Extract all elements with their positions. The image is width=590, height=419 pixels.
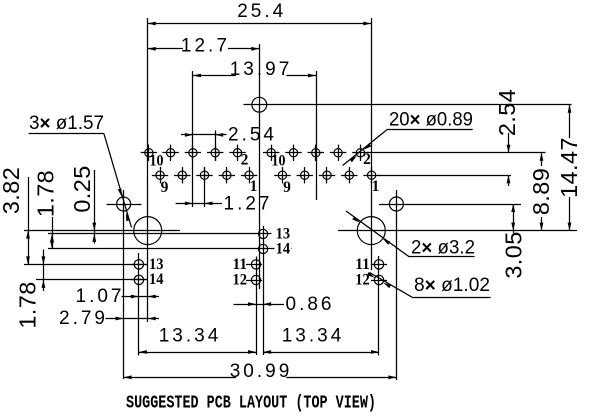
pin label 12 right	[355, 272, 370, 289]
pin 10 left connector (ø0.89)	[141, 145, 157, 161]
pin 1 left connector (ø0.89)	[241, 167, 257, 183]
pin label 9 right	[283, 179, 291, 196]
pin 4 left connector (ø0.89)	[207, 145, 223, 161]
callout 3x ø1.57 leader	[104, 134, 132, 228]
pin 14 left column (ø1.02)	[131, 275, 147, 284]
dimension 1.07 line	[122, 295, 160, 299]
callout 2x ø3.2 text	[411, 238, 475, 259]
wire: pin 13 left centerline y=264.4 (line D)	[24, 264, 147, 266]
pin 8 right connector (ø0.89)	[285, 145, 301, 161]
dimension 30.99 text	[230, 361, 293, 382]
dimension 13.34 left text	[159, 326, 222, 347]
dimension 1.27 line	[176, 202, 222, 206]
svg-text:11: 11	[355, 256, 370, 273]
dimension 2.79 text	[59, 308, 108, 329]
svg-text:3.05: 3.05	[501, 231, 527, 278]
dimension 13.34 right text	[282, 326, 345, 347]
pin 13 mid column (ø1.02)	[259, 229, 268, 238]
svg-text:3× ø1.57: 3× ø1.57	[29, 113, 104, 134]
dimension 14.47 text	[556, 137, 582, 198]
pin 2 right connector (ø0.89)	[352, 145, 368, 161]
pin 12 mid column (ø1.02)	[246, 275, 262, 284]
svg-text:2× ø3.2: 2× ø3.2	[411, 238, 475, 259]
callout 3x ø1.57 text	[29, 113, 104, 134]
pin 3 left connector (ø0.89)	[219, 167, 235, 183]
dimension 13.97 line	[193, 74, 316, 78]
svg-text:9: 9	[283, 179, 291, 196]
wire: extension line from top hole center x=259.3	[259, 44, 261, 289]
mounting hole left 2x ø3.2	[134, 217, 162, 245]
svg-text:13.34: 13.34	[282, 326, 345, 347]
dimension 0.86 text	[286, 294, 335, 315]
callout 20x ø0.89 text	[389, 110, 473, 131]
svg-text:SUGGESTED PCB LAYOUT (TOP VIEW: SUGGESTED PCB LAYOUT (TOP VIEW)	[126, 393, 376, 413]
dimension 12.7 text	[181, 36, 230, 57]
pin label 9 left	[161, 179, 169, 196]
wire: pin 14 mid centerline y=248.9 (line C)	[48, 248, 292, 250]
svg-text:10: 10	[272, 153, 286, 170]
wire: extension line from left mounting hole center x=147.7	[147, 18, 149, 322]
svg-text:1: 1	[372, 178, 380, 195]
pin 4 right connector (ø0.89)	[330, 145, 346, 161]
dimension 13.97 text	[230, 59, 293, 80]
svg-text:1.27: 1.27	[224, 194, 273, 215]
dimension 1.78 upper line	[50, 217, 54, 249]
wire: extension from pin 5 left x=204.5	[204, 167, 206, 207]
dimension 3.82 line	[26, 177, 30, 264]
svg-text:10: 10	[150, 153, 164, 170]
wire: left hole horizontal centerline y=204	[107, 204, 142, 206]
callout 8x ø1.02 underline	[412, 297, 491, 299]
pin 5 left connector (ø0.89)	[196, 167, 212, 183]
svg-text:1.78: 1.78	[33, 170, 59, 217]
pin label 11 mid	[233, 256, 248, 273]
svg-text:2: 2	[363, 151, 371, 168]
dimension 3.05 text	[501, 231, 527, 278]
pin 13 left column (ø1.02)	[131, 260, 147, 269]
pin 2 left connector (ø0.89)	[229, 145, 245, 161]
wire: pin 13 mid centerline y=233.9 (line B)	[48, 233, 272, 235]
wire: right hole horizontal centerline y=204	[379, 204, 521, 206]
svg-text:30.99: 30.99	[230, 361, 293, 382]
index hole left ø1.57	[117, 197, 131, 211]
pin label 10 left	[150, 153, 164, 170]
dimension 1.07 text	[76, 286, 125, 307]
dimension 2.54 right line	[507, 105, 511, 186]
dimension 0.86 line	[234, 302, 285, 306]
dimension 14.47 line	[568, 105, 572, 231]
svg-text:13.97: 13.97	[230, 59, 293, 80]
svg-text:9: 9	[161, 179, 169, 196]
svg-text:3.82: 3.82	[0, 167, 24, 214]
dimension 2.54 top line	[181, 133, 226, 137]
callout 2x ø3.2 leader	[346, 211, 410, 257]
svg-text:14: 14	[149, 271, 164, 288]
pin label 13 left	[149, 256, 164, 273]
callout 20x ø0.89 leader	[343, 129, 388, 165]
svg-text:8.89: 8.89	[528, 168, 554, 215]
svg-text:2.54: 2.54	[228, 125, 277, 146]
pin 7 right connector (ø0.89)	[297, 167, 313, 183]
wire: left mounting hole centerline y=230.6 (line A)	[24, 230, 180, 232]
pin label 10 right	[272, 153, 286, 170]
pin label 11 right	[355, 256, 370, 273]
dimension 1.27 text	[224, 194, 273, 215]
pin 3 right connector (ø0.89)	[341, 167, 357, 183]
wire: extension from right hole x=396.4 down to 30.99	[396, 190, 398, 380]
pin label 12 mid	[233, 272, 248, 289]
svg-text:12.7: 12.7	[181, 36, 230, 57]
svg-text:1: 1	[250, 178, 258, 195]
wire: extension pins 11/12 right x=379	[378, 256, 380, 356]
pin label 1 right	[372, 178, 380, 195]
svg-text:1.07: 1.07	[76, 286, 125, 307]
pin label 14 mid	[275, 240, 292, 257]
pin 14 mid column (ø1.02)	[259, 244, 268, 253]
pin 9 right connector (ø0.89)	[274, 167, 290, 183]
svg-text:14: 14	[276, 240, 291, 257]
pin 8 left connector (ø0.89)	[162, 145, 178, 161]
index hole top ø1.57	[252, 97, 267, 112]
pin 5 right connector (ø0.89)	[319, 167, 335, 183]
wire: extension pins 11/12 mid x=256	[256, 257, 258, 356]
wire: extension pins 13/14 mid x=263.1	[263, 226, 265, 355]
pin 6 left connector (ø0.89)	[185, 145, 201, 161]
dimension 30.99 line	[124, 375, 397, 379]
pin 6 right connector (ø0.89)	[308, 145, 324, 161]
wire: extension from pin 4 left x=215.2	[215, 131, 217, 162]
svg-text:12: 12	[233, 272, 248, 289]
pin 11 right column (ø1.02)	[371, 260, 387, 269]
pin label 1 left	[250, 178, 258, 195]
pin 10 right connector (ø0.89)	[263, 145, 279, 161]
callout 8x ø1.02 text	[414, 275, 490, 296]
callout 8x ø1.02 leader	[367, 272, 412, 297]
wire: left connector centerline x=192.9	[192, 71, 194, 207]
pin 7 left connector (ø0.89)	[174, 167, 190, 183]
dimension 1.78 lower text	[15, 281, 41, 328]
wire: pin 14 left centerline y=279.9 (line E)	[36, 279, 147, 281]
wire: pin row2 extension right y=175.2	[378, 175, 511, 177]
dimension 8.89 text	[528, 166, 554, 217]
pin 11 mid column (ø1.02)	[246, 260, 262, 269]
pin 9 left connector (ø0.89)	[152, 167, 168, 183]
svg-text:11: 11	[233, 256, 248, 273]
svg-text:1.78: 1.78	[15, 281, 41, 328]
svg-text:13.34: 13.34	[159, 326, 222, 347]
svg-text:14.47: 14.47	[556, 137, 582, 198]
mounting hole right 2x ø3.2	[357, 217, 385, 245]
dimension 1.78 lower line	[42, 250, 46, 292]
pin label 14 left	[149, 271, 164, 288]
callout 3x ø1.57 underline	[29, 133, 104, 135]
dimension 13.34 left line	[139, 350, 256, 354]
svg-text:25.4: 25.4	[237, 1, 286, 22]
dimension 12.7 line	[148, 47, 260, 51]
pin 12 right column (ø1.02)	[371, 275, 387, 284]
dimension 13.34 right line	[263, 350, 379, 354]
dimension 1.78 upper text	[33, 170, 59, 217]
dimension 2.54 top text	[228, 125, 277, 146]
callout 2x ø3.2 underline	[410, 256, 475, 258]
caption SUGGESTED PCB LAYOUT (TOP VIEW)	[126, 393, 376, 413]
svg-text:8× ø1.02: 8× ø1.02	[414, 275, 490, 296]
pin 1 right connector (ø0.89)	[363, 167, 379, 183]
wire: right mounting hole centerline y=230.6	[338, 230, 577, 232]
pin label 13 mid	[276, 225, 291, 242]
svg-text:0.86: 0.86	[286, 294, 335, 315]
dimension 2.79 line	[106, 317, 160, 321]
index hole right ø1.57	[389, 197, 403, 211]
dimension 3.82 text	[0, 167, 24, 214]
svg-text:0.25: 0.25	[69, 165, 95, 212]
dimension 2.54 right text	[494, 89, 520, 136]
svg-text:2.79: 2.79	[59, 308, 108, 329]
pin label 2 right	[363, 151, 371, 168]
dimension 25.4 text	[237, 1, 286, 22]
pin label 2 left	[241, 152, 249, 169]
dimension 8.89 line	[540, 153, 544, 231]
dimension 0.25 line	[92, 170, 96, 244]
dimension 3.05 line	[511, 204, 515, 233]
wire: extension from left hole x=123.6 down to 30.99	[123, 190, 125, 379]
svg-text:20× ø0.89: 20× ø0.89	[389, 110, 473, 131]
wire: extension pins 13/14 left x=138.9	[138, 253, 140, 356]
dimension 0.25 text	[69, 165, 95, 212]
svg-text:2: 2	[241, 152, 249, 169]
svg-text:2.54: 2.54	[494, 89, 520, 136]
wire: extension line from right mounting hole center x=371.3	[371, 18, 373, 270]
wire: top hole horizontal centerline y=104.7	[244, 104, 572, 106]
wire: pin row1 extension right y=152.8	[367, 152, 546, 154]
wire: right connector centerline x=316	[316, 71, 318, 200]
callout 20x ø0.89 underline	[388, 129, 473, 131]
dimension 25.4 line	[148, 22, 372, 26]
